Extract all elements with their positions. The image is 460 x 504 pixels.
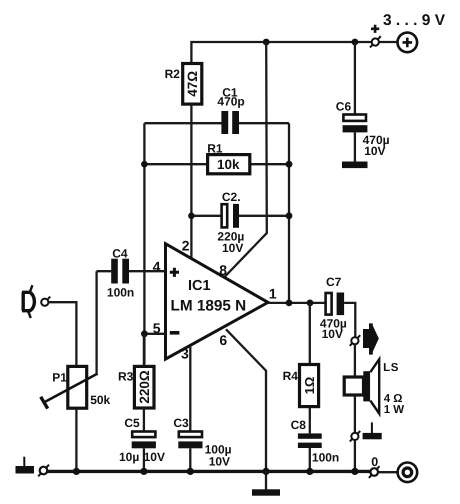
svg-text:R4: R4 <box>283 369 299 383</box>
svg-text:0: 0 <box>371 455 378 469</box>
wire feedback left vertical <box>143 123 145 364</box>
battery terminal BT- O <box>398 463 418 483</box>
wire pin5 <box>144 333 165 335</box>
node C2 right junction <box>286 212 293 219</box>
node rail speaker <box>351 468 358 475</box>
resistor R4 <box>283 303 319 434</box>
node C2 left junction <box>188 213 195 220</box>
resistor R3 <box>118 334 154 431</box>
svg-text:470p: 470p <box>217 95 244 109</box>
chassis mark input <box>16 457 35 474</box>
wire to speaker <box>354 344 356 377</box>
node pin5 junction <box>141 330 148 337</box>
wire input to P1 <box>48 302 76 366</box>
svg-text:47Ω: 47Ω <box>185 71 200 97</box>
node R1 left junction <box>141 161 148 168</box>
svg-text:C8: C8 <box>291 418 307 432</box>
svg-text:220Ω: 220Ω <box>137 370 152 404</box>
capacitor C6 <box>336 42 390 162</box>
capacitor C3 <box>173 416 231 472</box>
capacitor C4 <box>97 246 166 299</box>
node rail C3 <box>187 468 194 475</box>
connector input ground plug <box>38 465 49 477</box>
wire bottom ground rail <box>47 470 370 473</box>
svg-text:C2.: C2. <box>222 190 241 204</box>
wire to terminal O <box>378 471 398 473</box>
svg-text:LM 1895 N: LM 1895 N <box>171 298 247 315</box>
arrow signal output <box>363 323 379 354</box>
svg-text:1Ω: 1Ω <box>302 377 317 395</box>
svg-text:10µ: 10µ <box>119 450 139 464</box>
connector input plug <box>41 297 50 306</box>
capacitor C2 <box>191 190 289 255</box>
svg-text:6: 6 <box>219 332 227 348</box>
connector output lower plug <box>350 431 360 442</box>
svg-text:3 . . . 9 V: 3 . . . 9 V <box>383 12 446 29</box>
svg-text:3: 3 <box>181 345 189 361</box>
battery terminal BT+ <box>398 33 418 53</box>
svg-text:10V: 10V <box>322 327 343 341</box>
wire P1 wiper to C4 <box>95 271 97 374</box>
capacitor C8 <box>291 418 340 471</box>
svg-text:P1: P1 <box>52 370 67 384</box>
connector supply plug <box>370 25 381 48</box>
svg-text:10V: 10V <box>222 241 243 255</box>
node junction top rail to C6 <box>352 39 359 46</box>
chassis mark near speaker <box>363 422 382 439</box>
svg-text:100n: 100n <box>312 451 339 465</box>
loudspeaker LS <box>344 359 404 416</box>
wire pin8 supply line <box>225 42 267 277</box>
svg-text:10V: 10V <box>209 455 230 469</box>
node rail C5 <box>140 468 147 475</box>
svg-text:C3: C3 <box>173 416 189 430</box>
svg-text:50k: 50k <box>90 393 110 407</box>
svg-text:R2: R2 <box>165 67 181 81</box>
wire speaker to rail <box>354 395 356 471</box>
svg-text:IC1: IC1 <box>188 278 211 294</box>
resistor R2 <box>165 64 202 105</box>
svg-text:C6: C6 <box>336 100 352 114</box>
node R1 right junction <box>286 161 293 168</box>
capacitor C1 <box>144 85 289 134</box>
wire pin1 output <box>268 302 325 304</box>
wire pin3 to C3 <box>189 346 191 431</box>
svg-text:R1: R1 <box>207 142 223 156</box>
connector output terminal plug <box>369 466 380 478</box>
wire top supply rail <box>191 42 371 63</box>
potentiometer P1 <box>41 366 111 408</box>
svg-text:R3: R3 <box>118 370 134 384</box>
svg-text:2: 2 <box>182 238 190 254</box>
wire battery link <box>379 41 397 43</box>
node rail P1 <box>73 468 80 475</box>
microphone input symbol <box>22 285 34 318</box>
ground under C6 <box>342 162 368 169</box>
node rail C8 <box>306 468 313 475</box>
svg-text:C4: C4 <box>112 246 128 260</box>
svg-text:C5: C5 <box>124 416 140 430</box>
svg-text:10k: 10k <box>217 157 240 172</box>
connector output upper plug <box>350 335 360 346</box>
op-amp IC1 LM1895N <box>153 238 277 362</box>
node output to R4 <box>307 300 314 307</box>
resistor R1 <box>144 142 289 174</box>
node rail pin6 <box>262 468 269 475</box>
node output to feedback <box>286 300 293 307</box>
ground bottom center <box>252 471 280 495</box>
wire feedback right vertical <box>288 123 290 303</box>
wire P1 to rail <box>75 408 77 471</box>
svg-text:100n: 100n <box>107 286 134 300</box>
svg-text:10V: 10V <box>144 450 165 464</box>
wire R2 to pin2 <box>190 104 192 259</box>
capacitor C5 <box>119 416 165 472</box>
svg-text:C7: C7 <box>326 275 342 289</box>
svg-text:10V: 10V <box>364 144 385 158</box>
capacitor C7 <box>320 275 355 341</box>
svg-text:LS: LS <box>383 362 399 374</box>
svg-text:1 W: 1 W <box>384 404 405 416</box>
wire pin6 to ground rail <box>226 329 266 471</box>
node junction top rail to pin8 line <box>263 39 270 46</box>
svg-text:1: 1 <box>269 285 277 301</box>
svg-text:8: 8 <box>219 262 227 278</box>
